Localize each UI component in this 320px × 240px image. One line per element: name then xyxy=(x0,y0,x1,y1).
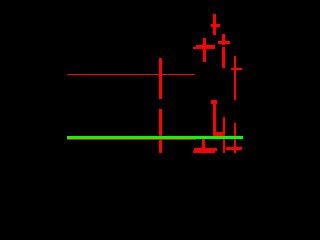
cross B2 vertical xyxy=(202,136,205,152)
cross C horizontal xyxy=(211,24,220,27)
cross B horizontal upper part xyxy=(196,45,215,47)
cross D2 vertical lower xyxy=(222,47,225,68)
data point T1 lower error bar xyxy=(159,109,162,153)
cross B2 horizontal lower part xyxy=(193,151,215,153)
data point T1 upper error bar xyxy=(159,58,162,99)
limit arrow stem xyxy=(213,104,216,136)
cross B horizontal lower part xyxy=(193,47,215,49)
red fit line (thin, upper) xyxy=(67,74,195,75)
cross C vertical xyxy=(213,14,216,35)
cross D2 horizontal xyxy=(218,41,230,44)
cross EF vertical lower xyxy=(234,123,237,153)
cross B vertical xyxy=(203,38,206,62)
limit arrow cap xyxy=(211,100,217,103)
cross G vertical xyxy=(223,117,226,153)
U bottom horizontal bar xyxy=(214,132,226,135)
cross B2 horizontal upper part xyxy=(194,148,218,151)
red fit line (lower, under green) xyxy=(67,138,196,140)
cross D2 vertical upper xyxy=(222,34,225,46)
cross F horizontal xyxy=(226,147,242,150)
green fit line xyxy=(67,136,243,139)
cross E horizontal xyxy=(231,68,243,70)
cross EF vertical upper xyxy=(234,56,237,101)
